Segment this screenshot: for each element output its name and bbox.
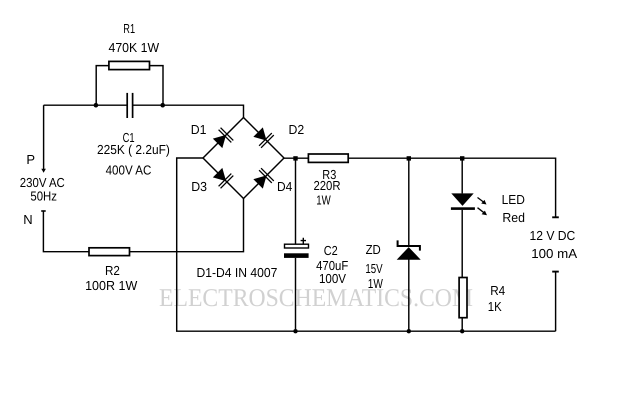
LED arrow 2 (478, 208, 488, 216)
junction dot rail / LED (460, 156, 464, 160)
zener diode ZD triangle (397, 247, 421, 260)
output terminal tick lower (552, 271, 559, 273)
resistor R1 box (109, 61, 150, 69)
wire: R4 bottom to rail (461, 318, 463, 332)
diode D2 (252, 126, 274, 148)
svg-text:225K ( 2.2uF): 225K ( 2.2uF) (97, 142, 170, 157)
junction dot bottom rail / zener (407, 329, 411, 333)
svg-text:ELECTROSCHEMATICS.COM: ELECTROSCHEMATICS.COM (159, 283, 473, 312)
bridge diamond frame (203, 118, 284, 199)
wire: C2 branch lower (295, 258, 297, 331)
resistor R2 box (89, 248, 130, 256)
wire: C2 branch upper (295, 158, 297, 244)
svg-text:ZD: ZD (366, 242, 381, 257)
junction dot rail / zener (407, 156, 411, 160)
svg-text:1W: 1W (368, 276, 384, 291)
svg-text:R2: R2 (105, 263, 120, 278)
resistor R4 box (459, 278, 467, 318)
svg-text:R4: R4 (490, 283, 505, 298)
svg-text:1K: 1K (488, 299, 502, 314)
junction dot bottom rail / C2 (293, 329, 297, 333)
wire: R1 loop left riser (96, 66, 109, 106)
capacitor C2 top plate (285, 244, 309, 248)
svg-text:D1-D4 IN 4007: D1-D4 IN 4007 (196, 265, 277, 280)
svg-text:470K 1W: 470K 1W (109, 40, 160, 55)
svg-text:220R: 220R (313, 178, 340, 193)
svg-text:D1: D1 (191, 122, 207, 137)
terminal P arrowhead (41, 169, 46, 173)
svg-text:P: P (26, 152, 35, 167)
svg-text:C2: C2 (324, 243, 338, 258)
svg-text:50Hz: 50Hz (30, 188, 57, 203)
wire: zener branch lower (408, 260, 410, 332)
wire: LED to R4 (461, 210, 463, 278)
LED triangle (451, 193, 473, 206)
svg-text:100R 1W: 100R 1W (85, 278, 138, 293)
zener diode ZD bar with hooks (397, 240, 421, 250)
terminal N tick (41, 210, 46, 212)
wire: top AC line from P corner to C1 left plate (44, 104, 127, 106)
capacitor C1 plates (127, 93, 132, 118)
svg-text:100V: 100V (319, 271, 346, 286)
junction dot bottom rail / R4 (460, 329, 464, 333)
svg-text:100 mA: 100 mA (531, 246, 577, 261)
svg-text:1W: 1W (316, 193, 331, 208)
svg-text:D3: D3 (191, 179, 207, 194)
output terminal tick upper (552, 216, 559, 218)
capacitor C2 plus sign (301, 238, 306, 245)
resistor R3 box (308, 154, 348, 162)
junction dot rail / C2 (293, 156, 297, 160)
wire: positive rail from bridge right vertex to right edge (284, 158, 556, 217)
diode D1 (211, 128, 233, 150)
junction dot R1/C1 left (94, 103, 99, 108)
junction dot R1/C1 right (160, 103, 165, 108)
svg-text:400V AC: 400V AC (106, 163, 152, 178)
diode D3 (211, 166, 233, 188)
wire: lower output bracket vertical (555, 272, 557, 332)
svg-text:D4: D4 (277, 179, 292, 194)
wire: R2 to bridge bottom vertex riser (130, 199, 244, 252)
wire: N terminal drop to R2 (43, 211, 89, 252)
LED cathode bar (451, 207, 475, 210)
diode D4 (252, 168, 274, 190)
LED arrow 1 (478, 198, 487, 205)
wire: P terminal drop (43, 105, 45, 169)
svg-text:R1: R1 (123, 21, 135, 36)
svg-text:15V: 15V (365, 261, 383, 276)
capacitor C2 bottom plate (284, 253, 309, 258)
svg-text:D2: D2 (289, 122, 305, 137)
wire: zener branch upper (408, 158, 410, 245)
svg-text:N: N (23, 212, 32, 227)
svg-text:12 V DC: 12 V DC (529, 228, 575, 243)
wire: LED branch upper (461, 158, 463, 193)
svg-text:LED: LED (502, 192, 525, 207)
wire: R1 loop right riser (150, 66, 164, 106)
svg-text:Red: Red (502, 210, 525, 225)
wire: C1 right plate to bridge top corner, down to bridge top vertex (133, 105, 244, 117)
wire: left vertex to negative rail (down) and bottom rail (177, 158, 556, 331)
